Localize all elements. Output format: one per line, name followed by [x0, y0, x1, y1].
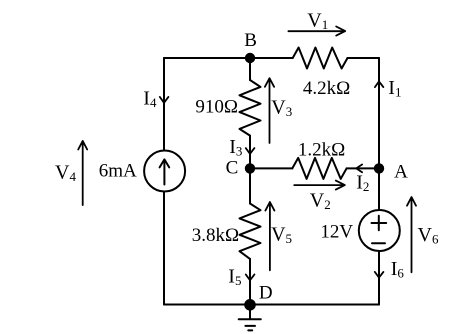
svg-text:6mA: 6mA	[99, 161, 137, 182]
voltage source minus sign	[372, 242, 385, 244]
ground symbol at node D	[239, 305, 261, 331]
svg-text:910Ω: 910Ω	[195, 97, 238, 118]
node B dot	[245, 53, 255, 63]
wire from resistor 1.2k to node A	[347, 167, 379, 169]
svg-text:C: C	[226, 157, 239, 178]
svg-text:D: D	[259, 282, 273, 303]
resistor 1.2kΩ (middle, horizontal)	[292, 158, 346, 179]
resistor 3.8kΩ (vertical, between C and D)	[240, 204, 261, 259]
wire top-left from left rail to node B	[164, 57, 250, 59]
arrow I5 (down, on wire above node D)	[246, 275, 255, 281]
wire right rail upper (top corner to node A)	[378, 58, 380, 168]
wire bottom rail	[164, 304, 379, 306]
current source I-6mA circle	[144, 151, 185, 192]
node C dot	[245, 163, 255, 173]
svg-text:1.2kΩ: 1.2kΩ	[298, 140, 345, 161]
voltage source plus sign	[372, 216, 387, 230]
wire from resistor 3.8k down to node D	[249, 259, 251, 305]
arrow V3 (up, right of 910)	[265, 78, 274, 143]
svg-text:4.2kΩ: 4.2kΩ	[303, 78, 350, 99]
resistor 910Ω (vertical, between B and C)	[240, 80, 261, 136]
wire from node B down to resistor 910	[249, 58, 251, 80]
wire left rail upper (node to current source)	[163, 58, 165, 151]
svg-text:B: B	[244, 30, 257, 51]
voltage source V-12 circle	[359, 210, 400, 251]
arrow V5 (up, right of 3.8k)	[265, 202, 274, 270]
svg-text:12V: 12V	[320, 222, 353, 243]
wire from resistor 4.2k to top-right corner	[348, 57, 380, 59]
wire from node C down to resistor 3.8k	[249, 168, 251, 203]
svg-text:A: A	[394, 162, 408, 183]
arrow I1 (up, on right rail)	[375, 81, 383, 87]
node D dot	[244, 299, 256, 311]
wire from node C to resistor 1.2k	[250, 167, 292, 169]
arrow V1 (right, above 4.2k)	[288, 27, 345, 36]
resistor 4.2kΩ (top, horizontal)	[293, 48, 348, 69]
arrow I4 (down, on left rail)	[160, 97, 169, 103]
arrow V6 (up, right of 12V source)	[407, 197, 416, 272]
wire right rail from node A to 12V source	[378, 168, 380, 210]
current source arrow (up)	[163, 160, 165, 184]
arrow V2 (right, below 1.2k)	[294, 181, 345, 190]
svg-text:3.8kΩ: 3.8kΩ	[192, 225, 239, 246]
arrow I3 (down, on wire above node C)	[246, 148, 255, 154]
arrow I6 (down, on right rail below source)	[375, 272, 384, 278]
node A dot	[374, 163, 384, 173]
wire from node B to resistor R-4.2k	[250, 57, 293, 59]
arrow V4 (up, far left)	[78, 141, 87, 205]
wire right rail lower (12V source to bottom rail)	[378, 251, 380, 305]
wire left rail lower (current source to bottom rail)	[163, 192, 165, 305]
arrow I2 (left, on wire into node A)	[356, 165, 362, 173]
wire from resistor 910 down to node C	[249, 136, 251, 169]
